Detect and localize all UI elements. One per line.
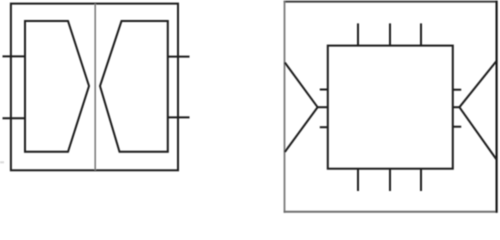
right package outline U2 right edge bbox=[496, 1, 498, 213]
pin 4 (right bottom lead) bbox=[168, 116, 190, 118]
bottom pin 1 bbox=[357, 169, 359, 191]
right element E2 (pinched trapezoid) bbox=[100, 21, 168, 152]
left element E1 (pinched trapezoid) bbox=[25, 21, 89, 152]
right bowtie feed wire bbox=[453, 106, 460, 108]
bottom pin 3 bbox=[420, 169, 422, 191]
left bowtie element bbox=[285, 63, 318, 153]
bottom pin 2 bbox=[389, 169, 391, 191]
right package outline U2 left edge bbox=[284, 1, 286, 213]
pin 2 (left bottom lead) bbox=[3, 117, 26, 119]
chip die D1 bbox=[328, 46, 453, 169]
right package outline U2 bottom edge bbox=[284, 211, 498, 213]
faint lead remnant mark bbox=[0, 161, 4, 163]
left stub top bbox=[320, 89, 328, 91]
right bowtie element bbox=[459, 61, 496, 160]
top pin 2 bbox=[389, 23, 391, 45]
right stub top bbox=[453, 89, 462, 91]
top pin 1 bbox=[357, 23, 359, 45]
left package outline U1 bbox=[11, 4, 178, 171]
left stub bottom bbox=[320, 126, 328, 128]
left bowtie feed wire bbox=[318, 106, 328, 108]
center divider wall bbox=[94, 4, 96, 171]
pin 1 (left top lead) bbox=[3, 55, 26, 57]
top pin 3 bbox=[420, 23, 422, 45]
right stub bottom bbox=[453, 126, 462, 128]
pin 3 (right top lead) bbox=[168, 56, 190, 58]
right package outline U2 top edge bbox=[284, 1, 498, 3]
